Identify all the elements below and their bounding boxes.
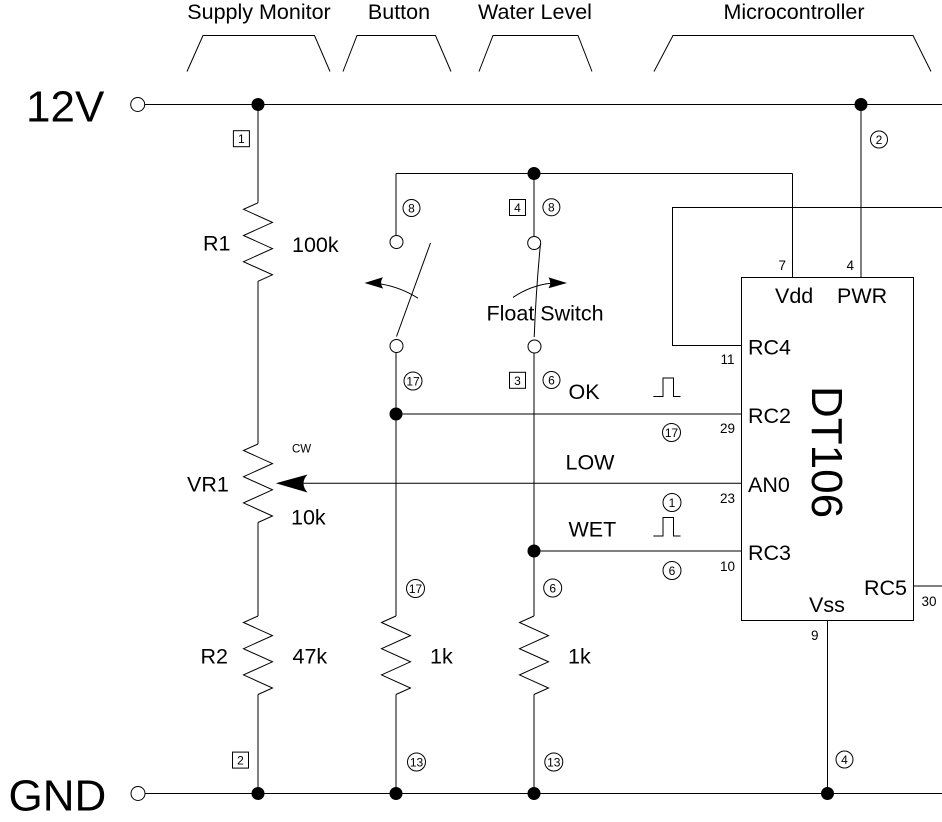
svg-text:10: 10: [720, 559, 735, 574]
pulse symbol (OK / RC2): [653, 378, 680, 397]
wire button to junction: [395, 353, 397, 415]
junction GND / button resistor: [390, 787, 403, 800]
bracket Microcontroller: [654, 36, 931, 72]
svg-text:RC3: RC3: [748, 541, 791, 565]
switch float bottom contact: [528, 340, 541, 353]
pin label 4 (boxed, water top): [510, 200, 526, 216]
terminal 12V: [131, 98, 145, 112]
pin label 1 (circled, AN0 row): [663, 494, 681, 512]
pin label 3 (boxed, water bottom): [510, 372, 526, 388]
wire Vss to GND: [827, 621, 829, 794]
svg-text:LOW: LOW: [566, 451, 616, 475]
switch SW button blade: [397, 243, 431, 337]
wire feed to float switch: [533, 174, 535, 237]
resistor R1: [244, 203, 273, 281]
svg-text:6: 6: [669, 564, 676, 578]
pin label 13 (circled, water): [545, 753, 563, 771]
wire 12V to R1: [257, 105, 259, 203]
svg-text:7: 7: [778, 258, 786, 273]
bracket Supply Monitor: [187, 36, 330, 72]
pin label 6 (circled, above 1k water): [544, 579, 562, 597]
svg-text:4: 4: [846, 258, 854, 273]
pulse symbol (WET / RC3): [653, 518, 680, 537]
svg-text:WET: WET: [569, 518, 617, 542]
svg-text:47k: 47k: [293, 645, 328, 669]
svg-text:R2: R2: [201, 645, 228, 669]
pin label 8 (circled, button top): [403, 200, 420, 217]
svg-text:Microcontroller: Microcontroller: [724, 0, 865, 24]
switch SW button top contact: [390, 236, 403, 249]
svg-text:10k: 10k: [291, 506, 326, 530]
svg-text:1: 1: [238, 132, 245, 146]
wire 1k to GND (button): [395, 695, 397, 794]
pin label 4 (circled, Vss): [836, 751, 853, 768]
wire R2 to GND: [257, 695, 259, 794]
svg-text:30: 30: [922, 594, 937, 609]
svg-text:17: 17: [665, 426, 679, 440]
svg-text:GND: GND: [9, 771, 107, 820]
svg-text:RC2: RC2: [748, 404, 791, 428]
svg-text:13: 13: [547, 755, 561, 769]
svg-text:1: 1: [669, 496, 676, 510]
svg-text:RC5: RC5: [864, 576, 907, 600]
junction water / RC3: [528, 545, 541, 558]
switch SW button actuation arc: [380, 284, 419, 298]
bracket Button: [343, 36, 451, 72]
pin label 17 (circled, above 1k): [407, 580, 425, 598]
pin label 8 (circled, water top): [543, 199, 560, 216]
wire float to junction: [533, 353, 535, 551]
svg-text:23: 23: [720, 491, 735, 506]
wire water junction to pulldown: [533, 551, 535, 616]
svg-text:6: 6: [548, 373, 555, 387]
resistor 1k (button pulldown): [382, 616, 411, 695]
switch float blade: [534, 244, 540, 338]
junction GND / water resistor: [528, 787, 541, 800]
wire RC5 net: [914, 585, 942, 587]
svg-text:4: 4: [514, 201, 521, 215]
svg-text:17: 17: [406, 374, 420, 388]
wire VR1 to R2: [257, 523, 259, 617]
svg-text:100k: 100k: [292, 233, 339, 257]
pin label 6 (circled, RC3 row): [663, 562, 681, 580]
svg-text:CW: CW: [292, 444, 311, 456]
svg-text:Vdd: Vdd: [775, 284, 813, 308]
switch SW button arrowhead: [365, 277, 384, 288]
svg-text:AN0: AN0: [748, 473, 790, 497]
wire 12V rail: [145, 104, 942, 106]
svg-text:1k: 1k: [568, 645, 591, 669]
wire R1 to VR1: [257, 281, 259, 444]
pin label 13 (circled, button): [408, 753, 426, 771]
svg-text:8: 8: [548, 201, 555, 215]
svg-text:8: 8: [408, 201, 415, 215]
wire RC3 net: [534, 550, 742, 552]
pin label 17 (circled, RC2 row): [663, 424, 681, 442]
svg-text:RC4: RC4: [748, 336, 791, 360]
svg-text:3: 3: [514, 374, 521, 388]
wire Vdd drop: [792, 174, 794, 278]
wire RC4 net: [673, 208, 942, 346]
svg-text:6: 6: [549, 581, 556, 595]
wire RC2 net: [396, 413, 742, 415]
wire top feed rail: [396, 173, 793, 175]
pin label 1 (boxed): [233, 131, 249, 147]
svg-text:12V: 12V: [26, 82, 105, 131]
bracket Water Level: [479, 36, 592, 72]
svg-text:13: 13: [410, 755, 424, 769]
svg-text:Vss: Vss: [809, 593, 845, 617]
pin label 2 (circled): [871, 131, 888, 148]
wire 1k to GND (water): [533, 695, 535, 794]
switch float arrowhead: [549, 277, 568, 288]
svg-text:11: 11: [720, 352, 734, 367]
junction 12V / PWR: [855, 98, 868, 111]
pin label 6 (circled, water bottom): [543, 372, 560, 389]
junction button / RC2: [390, 408, 403, 421]
svg-text:R1: R1: [203, 232, 230, 256]
svg-text:17: 17: [409, 582, 423, 596]
resistor R2: [244, 616, 273, 695]
wire AN0 net (VR1 wiper): [300, 482, 742, 484]
svg-text:4: 4: [841, 753, 848, 767]
wire feed to button: [395, 174, 397, 236]
switch SW button bottom contact: [390, 340, 403, 353]
svg-text:PWR: PWR: [837, 284, 887, 308]
wire GND rail: [145, 793, 942, 795]
wire button junction to pulldown: [395, 414, 397, 616]
svg-text:DT106: DT106: [802, 386, 851, 518]
switch float top contact: [528, 237, 541, 250]
svg-text:VR1: VR1: [187, 473, 229, 497]
svg-text:Button: Button: [368, 0, 430, 24]
resistor 1k (water pulldown): [520, 616, 549, 695]
svg-text:1k: 1k: [430, 645, 453, 669]
svg-text:29: 29: [720, 421, 735, 436]
junction feed / water level: [528, 167, 541, 180]
svg-text:2: 2: [876, 133, 883, 147]
svg-text:Water Level: Water Level: [478, 0, 592, 24]
svg-text:OK: OK: [569, 380, 601, 404]
switch float actuation arc: [513, 283, 551, 297]
svg-text:2: 2: [237, 754, 244, 768]
arrowhead VR1 wiper: [276, 475, 308, 493]
pin label 2 (boxed): [233, 752, 249, 768]
svg-text:Supply Monitor: Supply Monitor: [187, 0, 330, 24]
pin label 17 (circled, button bottom): [404, 372, 422, 390]
junction GND / Vss: [821, 787, 834, 800]
junction GND / R2: [252, 787, 265, 800]
svg-text:Float Switch: Float Switch: [487, 301, 604, 325]
potentiometer VR1: [244, 444, 273, 523]
wire PWR net: [860, 105, 862, 278]
terminal GND: [131, 787, 145, 801]
microcontroller U1 body: [742, 278, 914, 621]
svg-text:9: 9: [811, 628, 819, 643]
junction 12V / R1: [252, 98, 265, 111]
